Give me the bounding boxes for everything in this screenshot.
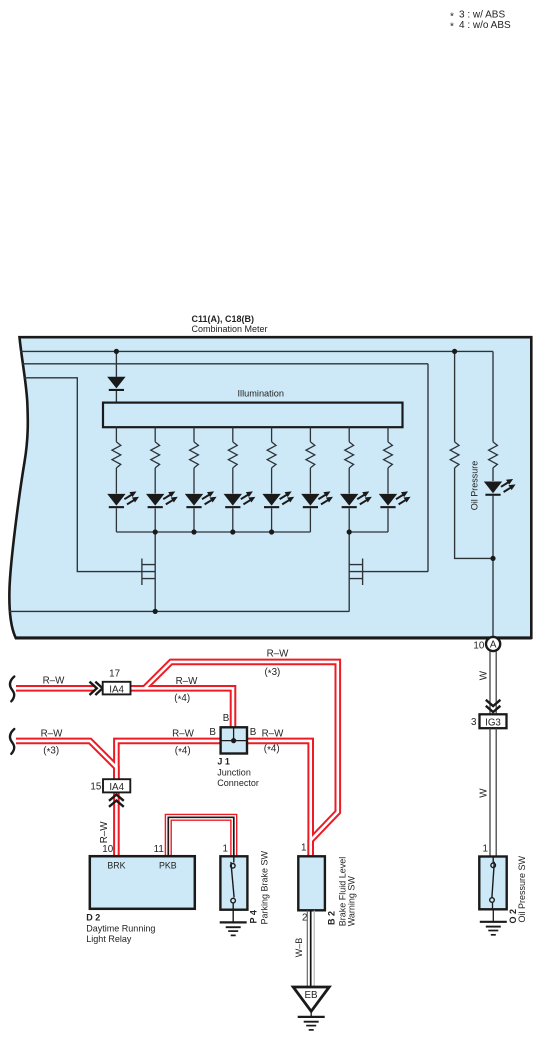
meter box bottom edge	[15, 636, 532, 639]
red wires white inner pass	[16, 662, 338, 858]
oil pressure LED	[484, 479, 516, 496]
svg-text:Oil Pressure: Oil Pressure	[470, 461, 480, 511]
connector IA4 pin15	[109, 795, 124, 807]
wire line C rectangle	[24, 378, 155, 572]
svg-text:4 : w/o ABS: 4 : w/o ABS	[459, 20, 511, 31]
svg-text:P 4: P 4	[249, 910, 259, 923]
svg-text:B: B	[223, 713, 230, 724]
combination meter box	[9, 337, 531, 638]
wire line A	[20, 350, 493, 352]
svg-text:B: B	[250, 727, 257, 738]
svg-text:2: 2	[302, 913, 307, 924]
svg-text:R–W: R–W	[172, 728, 195, 739]
wire break1 to IA4-17	[16, 685, 94, 692]
svg-text:3 : w/ ABS: 3 : w/ ABS	[459, 10, 505, 21]
lamp column 7	[340, 427, 372, 532]
junction dot bus col7	[347, 529, 352, 534]
svg-text:IA4: IA4	[109, 782, 124, 793]
svg-text:Warning SW: Warning SW	[346, 876, 356, 927]
svg-text:Parking Brake SW: Parking Brake SW	[260, 850, 270, 924]
red wires thick pass	[16, 662, 338, 858]
svg-text:R–W: R–W	[267, 648, 290, 659]
junction dot oil resistor branch	[452, 349, 457, 354]
svg-text:*: *	[450, 11, 454, 22]
svg-text:10: 10	[102, 844, 113, 855]
oil pressure resistors	[450, 442, 459, 468]
svg-text:IA4: IA4	[109, 684, 124, 695]
diode in meter	[107, 377, 125, 391]
svg-text:EB: EB	[304, 990, 318, 1001]
svg-text:B 2: B 2	[327, 911, 337, 925]
junction connector J1	[221, 727, 247, 753]
svg-text:3: 3	[471, 717, 477, 728]
wire line B	[22, 363, 429, 365]
brake fluid switch B2	[298, 856, 325, 910]
svg-text:(*4): (*4)	[264, 743, 280, 756]
svg-text:BRK: BRK	[107, 860, 125, 870]
svg-text:R–W: R–W	[41, 728, 64, 739]
junction dot diode feed	[114, 349, 119, 354]
junction dot oil branch merge	[490, 556, 495, 561]
wire break symbol 1	[10, 677, 14, 702]
junction dot bus col2	[153, 529, 158, 534]
svg-text:IG3: IG3	[485, 718, 501, 729]
lamp column 3	[185, 427, 217, 532]
parking brake switch P4	[220, 856, 247, 909]
wire J1 right to B2	[247, 741, 311, 858]
lamp column 5	[262, 427, 294, 532]
svg-text:Junction: Junction	[217, 767, 251, 777]
wire J1 left to IA4-15	[116, 741, 220, 780]
wire R-B loop PKB to P4	[168, 817, 234, 856]
svg-text:(*4): (*4)	[175, 745, 191, 758]
svg-text:Connector: Connector	[217, 778, 259, 788]
svg-text:(*3): (*3)	[265, 667, 281, 680]
svg-text:PKB: PKB	[159, 860, 177, 870]
W-B wire B2 to EB	[307, 911, 314, 988]
O2 switch contacts	[492, 857, 494, 864]
O2 ground	[480, 922, 507, 935]
connector A circle	[486, 637, 500, 651]
lamp column 1	[107, 427, 139, 532]
oil pressure LED branch	[492, 351, 494, 637]
svg-text:17: 17	[109, 669, 120, 680]
LED bus left	[116, 531, 310, 533]
diode feed wire	[115, 351, 117, 402]
svg-text:15: 15	[90, 782, 101, 793]
svg-text:Combination Meter: Combination Meter	[192, 324, 268, 334]
P4 switch contacts	[233, 856, 235, 862]
svg-text:D 2: D 2	[86, 912, 100, 922]
svg-text:Daytime Running: Daytime Running	[86, 923, 155, 933]
wire IA4-17 to J1 top	[131, 688, 234, 727]
J1 internal bus wire	[221, 740, 247, 742]
svg-text:(*4): (*4)	[174, 693, 190, 706]
W wire circle A to IG3	[490, 651, 496, 713]
lamp column 6	[301, 427, 333, 532]
relay D2 box	[90, 856, 195, 909]
svg-text:(*3): (*3)	[43, 745, 59, 758]
junction dot bus col3	[191, 529, 196, 534]
wire col7 down	[348, 532, 350, 611]
W wire IG3 to O2	[490, 728, 496, 856]
svg-text:W–B: W–B	[294, 938, 304, 958]
svg-text:Illumination: Illumination	[238, 388, 284, 398]
chevron arrows into IA4-17	[90, 682, 103, 695]
wire col2 down	[154, 532, 156, 611]
wire break symbol 2	[10, 729, 14, 754]
svg-text:10: 10	[473, 640, 484, 651]
connector IG3	[480, 714, 507, 728]
svg-text:W: W	[479, 788, 490, 798]
R-B black center	[168, 817, 234, 856]
svg-text:*: *	[450, 22, 454, 33]
svg-text:W: W	[479, 670, 490, 680]
svg-text:R–W: R–W	[99, 821, 110, 844]
wire break2 diagonal to IA4-15	[16, 741, 116, 780]
comb junction left	[142, 559, 155, 586]
svg-text:11: 11	[154, 844, 164, 855]
junction dots	[114, 349, 496, 614]
junction dot bottom bus	[153, 609, 158, 614]
inner wires	[9, 351, 493, 637]
svg-text:Light Relay: Light Relay	[86, 934, 132, 944]
P4 ground	[220, 922, 247, 935]
oil pressure switch O2	[479, 857, 506, 910]
svg-text:B: B	[209, 727, 216, 738]
lamp column 4	[224, 427, 256, 532]
lamp column 2	[146, 427, 178, 532]
wire IA4-15 down to D2	[113, 792, 120, 856]
svg-text:C11(A), C18(B): C11(A), C18(B)	[192, 314, 255, 324]
connector IA4 pin17	[103, 682, 131, 695]
wire IA4-17 diagonal to B2 (*3)	[144, 662, 338, 858]
LED bus right	[349, 531, 388, 533]
svg-text:1: 1	[301, 843, 306, 854]
lamp column 8	[379, 427, 411, 532]
note legend w/ ABS	[450, 10, 511, 33]
wire bottom bus	[9, 610, 349, 612]
svg-text:R–W: R–W	[262, 728, 285, 739]
svg-text:1: 1	[483, 844, 488, 855]
svg-text:Oil Pressure SW: Oil Pressure SW	[517, 855, 527, 922]
illumination box	[103, 403, 403, 428]
junction dot bus col5	[269, 529, 274, 534]
J1 junction dot	[231, 738, 236, 743]
chevrons into IG3	[486, 700, 501, 712]
oil pressure resistor branch	[455, 351, 493, 558]
svg-text:R–W: R–W	[176, 676, 199, 687]
svg-text:R–W: R–W	[43, 676, 66, 687]
ground EB triangle	[293, 987, 329, 1011]
svg-text:A: A	[490, 640, 497, 651]
junction dot bus col4	[230, 529, 235, 534]
comb junction right	[349, 364, 428, 585]
svg-text:J 1: J 1	[217, 757, 230, 767]
svg-text:1: 1	[222, 843, 227, 854]
